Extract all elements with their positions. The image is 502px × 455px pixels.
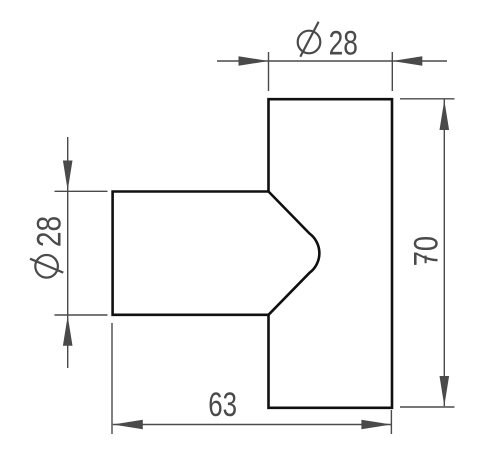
left dimension Ø28 arrow bottom <box>63 316 73 346</box>
cone junction line <box>269 192 320 315</box>
bottom dimension 63 extension line right <box>390 410 392 434</box>
top dimension Ø28 extension line left <box>268 52 270 91</box>
right dimension 70 dimension line <box>443 100 445 407</box>
top dimension Ø28 arrow left <box>239 56 269 66</box>
right dimension 70 arrow top <box>440 100 450 130</box>
left dimension Ø28 extension line top <box>55 190 108 192</box>
top dimension Ø28 diameter symbol <box>298 22 321 57</box>
svg-text:28: 28 <box>329 25 358 63</box>
top dimension Ø28 dimension line <box>217 60 447 62</box>
right dimension 70 arrow bottom <box>440 376 450 406</box>
right dimension 70 crossbar of 7 <box>425 256 427 264</box>
part outline <box>113 99 392 408</box>
bottom dimension 63 arrow right <box>361 420 391 430</box>
svg-text:63: 63 <box>208 386 237 424</box>
left dimension Ø28 arrow top <box>63 161 73 191</box>
right dimension 70 extension line top <box>400 98 455 100</box>
bottom dimension 63 arrow left <box>113 420 143 430</box>
left dimension Ø28 extension line bottom <box>55 314 108 316</box>
right dimension 70 extension line bottom <box>400 406 455 408</box>
bottom dimension 63 extension line left <box>111 323 113 434</box>
top dimension Ø28 arrow right <box>392 56 422 66</box>
svg-text:28: 28 <box>31 216 69 247</box>
top dimension Ø28 extension line right <box>391 52 393 91</box>
left dimension Ø28 dimension line <box>67 137 69 368</box>
bottom dimension 63 dimension line <box>113 424 392 426</box>
left dimension Ø28 label (rotated) <box>30 216 69 278</box>
